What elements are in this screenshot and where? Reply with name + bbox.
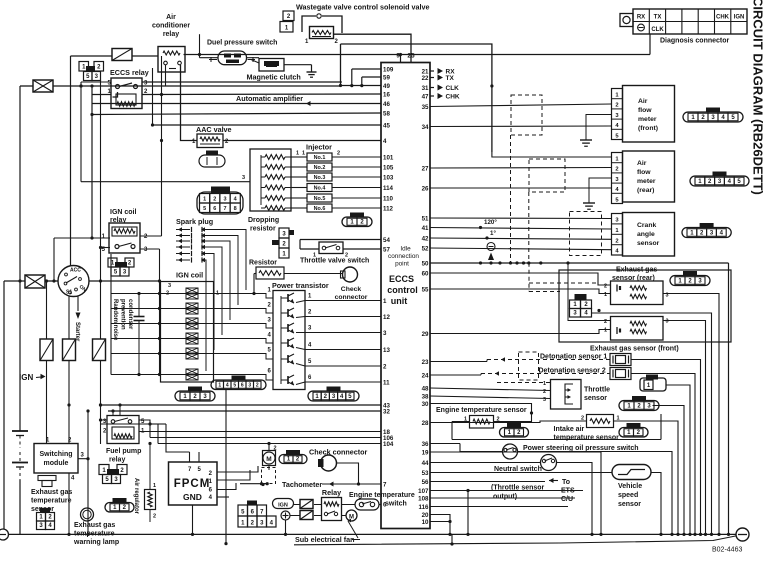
duel pressure switch symbol xyxy=(209,51,255,65)
wire pin107 xyxy=(430,489,583,492)
label AAC valve xyxy=(196,125,232,134)
wire fuel relay top pins xyxy=(99,405,120,422)
throttle valve switch box xyxy=(300,240,348,259)
wire AFM rear 3 ground xyxy=(583,178,612,209)
wire ac relay drop to pin45 wire xyxy=(152,68,154,125)
injectors No.1-No.6 xyxy=(291,153,381,212)
connector exhaust gas temp sensor xyxy=(37,508,55,530)
svg-text:112: 112 xyxy=(383,205,394,212)
svg-text:IGN coil: IGN coil xyxy=(110,209,137,216)
ECCS right pin numbers xyxy=(418,68,429,526)
ground for magnetic clutch xyxy=(307,65,317,78)
wastegate solenoid valve coil xyxy=(305,27,339,46)
label tachometer xyxy=(282,480,322,489)
svg-text:TX: TX xyxy=(446,75,455,82)
power transistor box xyxy=(273,291,305,390)
svg-text:IGN: IGN xyxy=(734,15,745,21)
svg-text:35: 35 xyxy=(422,104,429,111)
svg-text:3: 3 xyxy=(666,319,669,325)
svg-text:Wastegate valve control soleno: Wastegate valve control solenoid valve xyxy=(296,3,430,12)
wire FPCM pin6 xyxy=(217,483,236,490)
svg-text:50: 50 xyxy=(422,260,429,267)
wire rear sensor 3 down xyxy=(663,294,719,535)
svg-text:ACC: ACC xyxy=(70,268,81,274)
svg-text:Check: Check xyxy=(341,286,362,293)
wires coils to transistor box xyxy=(214,288,274,381)
ECCS control unit U1 main box xyxy=(381,53,430,529)
svg-text:29: 29 xyxy=(422,331,429,338)
svg-text:ECCS: ECCS xyxy=(389,274,414,284)
temperature sensors enclosure xyxy=(452,414,661,440)
svg-text:Spark plug: Spark plug xyxy=(176,217,213,226)
label dropping resistor xyxy=(248,217,279,233)
wires RX TX CLK CHK xyxy=(430,68,460,101)
power steering switch symbol xyxy=(503,444,518,459)
svg-text:No.5: No.5 xyxy=(314,196,326,202)
svg-text:56: 56 xyxy=(422,479,429,486)
svg-text:Air: Air xyxy=(638,98,648,105)
crank timing symbols xyxy=(487,243,495,261)
svg-text:Random noise: Random noise xyxy=(112,299,118,341)
connector under IGN coil relay xyxy=(108,258,134,276)
svg-text:RX: RX xyxy=(637,15,645,21)
wire bus 728 down xyxy=(728,263,730,534)
connector 3-pin vertical xyxy=(272,228,294,258)
wire IGN coil relay pin5 feed xyxy=(99,246,110,249)
svg-text:41: 41 xyxy=(422,225,429,232)
wire left rail main xyxy=(18,86,21,431)
svg-text:Check connector: Check connector xyxy=(309,448,368,457)
plus circle bottom xyxy=(281,511,290,534)
wire bulge connector right down xyxy=(666,385,690,534)
connector for wastegate solenoid xyxy=(280,11,294,32)
svg-text:53: 53 xyxy=(422,470,429,477)
svg-text:No.6: No.6 xyxy=(314,206,326,212)
svg-text:control: control xyxy=(387,285,418,295)
label to ETS CU xyxy=(549,478,575,503)
wire wastegate loop xyxy=(302,14,342,33)
wire ign switch starter arrow xyxy=(76,297,81,320)
IGN oval bottom xyxy=(273,499,294,509)
label duel pressure switch xyxy=(207,40,277,47)
AAC valve box xyxy=(192,134,229,148)
svg-text:2: 2 xyxy=(615,238,618,244)
IGN coil bank box xyxy=(161,282,214,383)
relay IGN coil box xyxy=(102,223,148,253)
wire pin44 through neutral switch xyxy=(430,463,592,535)
label 1deg xyxy=(490,230,496,237)
connector 2-pin oval mid xyxy=(342,213,372,227)
svg-text:105: 105 xyxy=(383,164,394,171)
relay ECCS pin labels xyxy=(108,81,149,96)
svg-text:B02-4463: B02-4463 xyxy=(712,547,742,554)
connector fuel pump relay xyxy=(99,465,127,484)
wire tachometer to pin7 xyxy=(240,482,381,487)
label throttle valve switch xyxy=(300,258,369,265)
svg-text:warning lamp: warning lamp xyxy=(73,539,119,546)
svg-text:12: 12 xyxy=(383,314,390,321)
svg-text:Diagnosis connector: Diagnosis connector xyxy=(660,38,730,45)
air regulator resistor xyxy=(145,442,157,522)
svg-text:3: 3 xyxy=(383,330,387,337)
fuse slash box bottom 1 xyxy=(300,500,313,509)
wire FPCM pin2 xyxy=(217,466,258,472)
svg-text:No.3: No.3 xyxy=(314,175,326,181)
wire feed to AFM rear 1 xyxy=(490,84,611,157)
wire IGN coil relay pin2 up xyxy=(140,235,162,237)
connector oval exhaust rear xyxy=(670,271,710,286)
svg-text:Engine temperature: Engine temperature xyxy=(349,492,415,499)
crank shield dashed box xyxy=(570,212,602,256)
label automatic amplifier xyxy=(236,94,303,103)
svg-text:meter: meter xyxy=(637,178,656,185)
svg-text:angle: angle xyxy=(637,231,655,238)
svg-text:2: 2 xyxy=(256,383,259,389)
svg-text:Exhaust gas sensor (front): Exhaust gas sensor (front) xyxy=(590,346,679,353)
svg-text:(rear): (rear) xyxy=(637,187,654,194)
fuse slash box bottom 2 xyxy=(300,511,313,520)
connector oval crank xyxy=(682,223,731,238)
wire to pin104 xyxy=(101,424,382,444)
svg-text:4: 4 xyxy=(226,383,229,389)
svg-text:(front): (front) xyxy=(638,125,658,132)
wire AAC valve feed xyxy=(181,65,198,141)
svg-text:2: 2 xyxy=(383,363,387,370)
wire pin29 to front sensor xyxy=(430,330,611,334)
connector bulge 1 xyxy=(640,375,666,392)
svg-text:1: 1 xyxy=(153,483,156,489)
crank angle sensor box xyxy=(623,213,675,257)
label throttle sensor output xyxy=(491,485,545,501)
engine temperature sensor resistor xyxy=(464,416,500,429)
svg-text:conditioner: conditioner xyxy=(152,23,190,30)
label neutral switch xyxy=(494,466,542,473)
svg-text:2: 2 xyxy=(615,167,618,173)
air flow meter rear pin strip xyxy=(612,153,623,204)
label resistor xyxy=(249,260,277,267)
svg-text:IGN: IGN xyxy=(278,503,288,509)
wire fuel relay pin5 xyxy=(139,420,152,426)
wire pin54 xyxy=(300,239,381,241)
wire 46 to switching module xyxy=(46,420,48,444)
svg-text:output): output) xyxy=(493,494,517,501)
wire junction top feed xyxy=(339,44,342,87)
svg-text:3: 3 xyxy=(223,197,226,203)
wire pin26 to AFM rear 4 xyxy=(430,187,612,189)
wire pin36 to ps switch xyxy=(430,444,503,452)
svg-text:45: 45 xyxy=(383,122,390,129)
svg-text:16: 16 xyxy=(383,91,390,98)
svg-text:GND: GND xyxy=(183,492,202,502)
label random noise prevention condenser xyxy=(112,299,133,341)
wire top feed to AFM area xyxy=(341,44,492,152)
svg-text:Throttle: Throttle xyxy=(584,387,610,394)
connector 2x2 exhaust xyxy=(570,294,592,317)
connector 6-pin oval under transistor xyxy=(211,376,266,390)
svg-text:3: 3 xyxy=(168,283,171,289)
wire ECCS relay pin3 right xyxy=(142,81,342,83)
svg-text:38: 38 xyxy=(422,393,429,400)
wire pin24 detonation2 dashed xyxy=(430,371,610,375)
svg-text:1: 1 xyxy=(543,381,546,387)
svg-text:C/U: C/U xyxy=(561,496,573,503)
wire pin52 to crank 4 xyxy=(430,248,612,250)
air flow meter front box xyxy=(623,86,675,143)
label fuel pump relay xyxy=(106,448,141,464)
svg-text:59: 59 xyxy=(383,74,390,81)
wire vert 161 xyxy=(160,56,163,236)
wire front sensor 3 down xyxy=(663,321,706,535)
svg-text:54: 54 xyxy=(383,237,390,244)
svg-text:Air: Air xyxy=(637,160,647,167)
wire pin30 to engine temp xyxy=(430,404,533,422)
label exhaust gas temperature sensor xyxy=(31,489,72,513)
fuel pump dashed tank xyxy=(261,466,275,486)
crank angle sensor pin strip xyxy=(612,214,623,256)
svg-text:42: 42 xyxy=(422,235,429,242)
wire switching module pin4 xyxy=(68,473,70,535)
connector grid bottom mid xyxy=(238,501,276,528)
fusible link F1 crossed box xyxy=(33,80,53,92)
svg-text:prevention: prevention xyxy=(120,299,126,330)
svg-text:1: 1 xyxy=(604,292,607,298)
neutral switch symbol xyxy=(541,455,557,471)
svg-text:module: module xyxy=(44,460,69,467)
svg-text:unit: unit xyxy=(391,296,408,306)
wire FPCM pin1 xyxy=(217,470,250,480)
svg-text:2: 2 xyxy=(604,284,607,290)
wire bottom fuse run 1 xyxy=(294,504,355,506)
svg-text:107: 107 xyxy=(418,488,429,495)
svg-text:Idle: Idle xyxy=(400,246,411,253)
wire engine temp switch to pin6 xyxy=(379,504,381,506)
wire ignition switch feed xyxy=(70,56,72,266)
wire to pin45 xyxy=(151,123,381,126)
wire pin38 to throttle xyxy=(430,396,551,399)
svg-text:Duel pressure switch: Duel pressure switch xyxy=(207,40,277,47)
spark plugs SP1-SP6 xyxy=(176,227,205,263)
svg-text:27: 27 xyxy=(422,165,429,172)
label sub electrical fan xyxy=(295,519,360,544)
label exhaust gas temperature warning lamp xyxy=(73,522,119,546)
svg-text:Dropping: Dropping xyxy=(248,217,279,224)
svg-text:meter: meter xyxy=(638,116,657,123)
fusible links three xyxy=(40,339,106,361)
wire magnetic clutch to ground xyxy=(284,64,312,66)
svg-text:116: 116 xyxy=(419,504,430,511)
wires coil feeds xyxy=(111,254,161,376)
wire battery feed horizontal xyxy=(20,84,341,87)
svg-text:1: 1 xyxy=(302,151,305,157)
svg-text:20: 20 xyxy=(422,512,429,519)
svg-text:Crank: Crank xyxy=(637,222,656,229)
svg-text:sensor: sensor xyxy=(584,395,607,402)
wire ECCS relay pin5 elbow xyxy=(81,81,111,83)
label exhaust gas sensor front xyxy=(590,346,679,353)
resistor R7 box xyxy=(252,267,342,295)
wire pin55 to rear sensor xyxy=(430,289,611,312)
label relay lower xyxy=(322,488,341,497)
wire pin41 to crank 1 xyxy=(430,226,612,229)
exhaust gas sensor front box xyxy=(604,317,669,341)
detonation shield dashed box xyxy=(519,352,539,380)
svg-text:32: 32 xyxy=(383,408,390,415)
wire vert 100 connector down xyxy=(99,80,102,339)
wire bottom fuse run 2 xyxy=(290,515,322,517)
connector oval engine temp xyxy=(500,423,529,437)
wire ac relay bottom pins xyxy=(165,65,167,86)
svg-text:1: 1 xyxy=(296,151,299,157)
svg-text:1: 1 xyxy=(383,298,387,305)
svg-text:1°: 1° xyxy=(490,230,496,237)
svg-text:3: 3 xyxy=(242,175,245,181)
svg-text:connection: connection xyxy=(388,253,419,260)
wire FPCM gnd xyxy=(192,505,194,535)
svg-text:sensor: sensor xyxy=(637,240,660,247)
diagnosis connector ear xyxy=(620,14,633,27)
svg-text:Switching: Switching xyxy=(39,451,72,458)
wire pin56 to ets xyxy=(430,481,545,483)
wire FPCM pins top xyxy=(190,448,200,462)
sub fan motor M xyxy=(342,510,358,521)
svg-text:resistor: resistor xyxy=(250,226,276,233)
wire oval123 right down xyxy=(653,406,685,535)
wire pin50 junction bus xyxy=(430,261,729,264)
label air regulator vertical xyxy=(133,478,139,515)
svg-text:switch: switch xyxy=(385,501,407,508)
svg-text:36: 36 xyxy=(422,441,429,448)
label spark plug xyxy=(176,217,213,226)
wire engine temp left xyxy=(452,422,470,440)
label starter vertical xyxy=(74,322,80,342)
label check connector upper xyxy=(335,286,368,301)
relay air conditioner box xyxy=(158,47,185,73)
wire FPCM top feed xyxy=(150,424,190,452)
wire to pin49 xyxy=(341,85,382,87)
svg-text:Sub electrical fan: Sub electrical fan xyxy=(295,535,355,544)
svg-text:Air: Air xyxy=(166,14,176,21)
svg-text:CIRCUIT DIAGRAM (RB26DETT): CIRCUIT DIAGRAM (RB26DETT) xyxy=(751,0,766,195)
magnetic clutch symbol xyxy=(251,59,284,72)
label check connector lower xyxy=(309,448,368,457)
wire pin48 to throttle xyxy=(430,388,551,391)
svg-text:CLK: CLK xyxy=(446,85,460,92)
svg-text:101: 101 xyxy=(383,154,394,161)
wire check connector lower xyxy=(337,463,361,486)
label detonation sensor 2 xyxy=(539,368,606,375)
svg-text:46: 46 xyxy=(383,101,390,108)
label wastegate valve control solenoid valve xyxy=(296,3,430,12)
svg-text:Air regulator: Air regulator xyxy=(133,478,139,515)
svg-text:CHK: CHK xyxy=(446,94,460,101)
wire IGN coil relay pin1 feed xyxy=(52,236,110,282)
svg-text:7: 7 xyxy=(383,481,387,488)
svg-text:1: 1 xyxy=(604,328,607,334)
svg-text:11: 11 xyxy=(383,379,390,386)
diagnosis connector grid xyxy=(633,9,747,34)
wires spark plug leads xyxy=(202,230,246,372)
wire AFM front 3 ground xyxy=(580,115,612,147)
label IGN coil relay xyxy=(110,209,137,224)
label injector xyxy=(306,143,332,152)
svg-text:Relay: Relay xyxy=(322,488,341,497)
wires shield drains dashed xyxy=(529,263,598,292)
label power transistor xyxy=(272,281,329,290)
shield dashed box AFM rear xyxy=(529,159,565,192)
svg-text:Exhaust gas: Exhaust gas xyxy=(74,522,115,529)
wire connector 2x2 right xyxy=(592,313,712,534)
dropping resistor bank box xyxy=(250,149,291,211)
FPCM box xyxy=(169,462,218,505)
svg-text:4: 4 xyxy=(383,138,387,145)
svg-text:104: 104 xyxy=(383,441,394,448)
label ECCS relay xyxy=(110,68,149,77)
svg-text:2: 2 xyxy=(604,319,607,325)
ignition coils T1-T6 xyxy=(161,288,214,380)
wire 10 right xyxy=(430,520,452,523)
wires fusible links down xyxy=(47,361,103,445)
wire to pin46 automatic amplifier xyxy=(92,101,381,106)
connector oval fuel area xyxy=(105,498,134,512)
label diagnosis connector xyxy=(660,38,730,45)
label IGN coil left xyxy=(176,271,203,280)
svg-text:23: 23 xyxy=(422,359,429,366)
svg-text:2: 2 xyxy=(213,197,216,203)
ECCS left pin numbers xyxy=(383,66,394,508)
svg-text:1: 1 xyxy=(218,383,221,389)
svg-text:2: 2 xyxy=(274,446,277,452)
label intake air temperature sensor xyxy=(554,426,620,442)
wire ps switch right xyxy=(518,452,673,535)
ignition switch xyxy=(58,266,89,297)
label B02-4463 xyxy=(712,547,742,554)
connector 5-pin oval right bottom xyxy=(308,387,359,402)
wire 20 down xyxy=(430,515,450,535)
svg-text:temperature: temperature xyxy=(31,498,72,505)
air flow meter rear box xyxy=(623,151,675,202)
svg-text:relay: relay xyxy=(109,457,125,464)
detonation sensor 2 symbol xyxy=(610,368,631,380)
wire to pin109 xyxy=(350,69,381,87)
svg-text:31: 31 xyxy=(422,85,429,92)
svg-text:2: 2 xyxy=(615,103,618,109)
wire IGN coil relay pin3 to coil bus xyxy=(140,249,161,375)
wire pin23 detonation1 dashed xyxy=(430,357,610,361)
svg-text:Injector: Injector xyxy=(306,143,332,152)
svg-text:10: 10 xyxy=(422,519,429,526)
wire intake air right xyxy=(614,421,679,534)
svg-text:No.1: No.1 xyxy=(314,155,326,161)
vehicle speed sensor symbol xyxy=(612,465,651,480)
svg-text:condenser: condenser xyxy=(127,299,133,330)
secondary bus xyxy=(294,534,736,545)
svg-text:109: 109 xyxy=(383,66,394,73)
svg-text:Intake air: Intake air xyxy=(554,426,585,433)
label engine temperature switch xyxy=(349,492,415,508)
wire pin43 xyxy=(67,403,381,406)
svg-text:CHK: CHK xyxy=(716,15,730,21)
svg-text:55: 55 xyxy=(422,286,429,293)
throttle sensor box xyxy=(543,380,581,410)
wire dropping resistor feed xyxy=(79,82,250,182)
svg-text:2: 2 xyxy=(153,514,156,520)
svg-text:No.2: No.2 xyxy=(314,165,326,171)
svg-text:Resistor: Resistor xyxy=(249,260,277,267)
wires transistor outputs to ECCS pins xyxy=(296,294,381,385)
label magnetic clutch xyxy=(247,73,301,82)
svg-text:CLK: CLK xyxy=(651,27,664,33)
ECCS control unit label xyxy=(387,246,419,307)
